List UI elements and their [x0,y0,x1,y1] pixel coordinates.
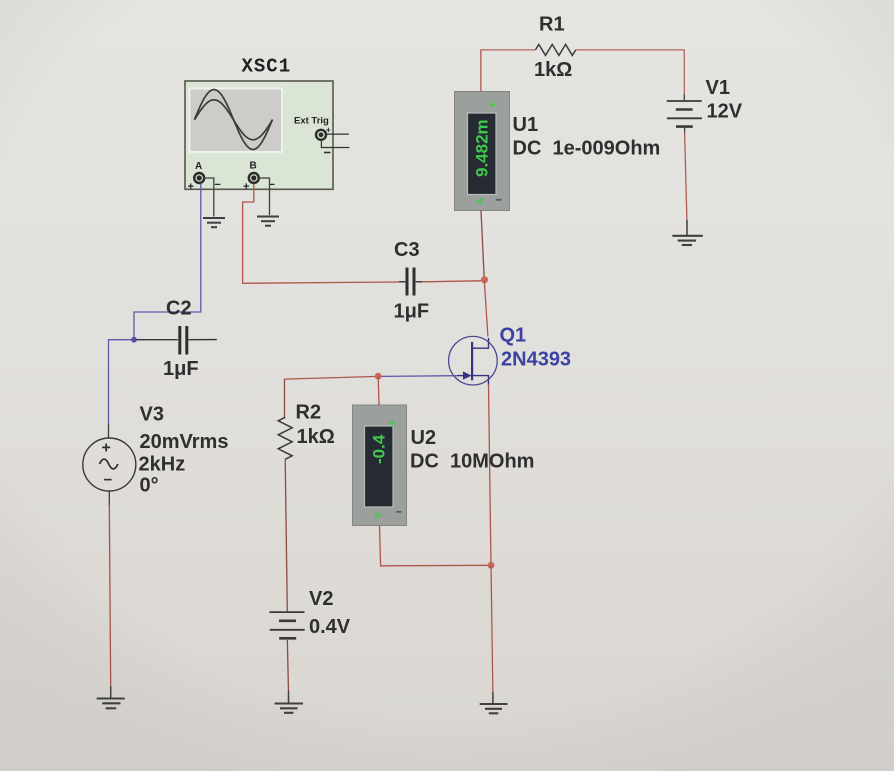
wire V2 to ground [287,638,288,703]
battery V1 [667,77,743,127]
svg-text:2kHz: 2kHz [139,454,186,476]
node drain/C3/U1 junction [481,276,488,283]
svg-text:Q1: Q1 [500,325,527,347]
wire source node to ground [491,565,493,703]
svg-text:C2: C2 [166,298,192,320]
resistor R1 [534,14,576,82]
oscilloscope XSC1 [185,56,349,194]
svg-text:U1: U1 [513,114,539,136]
svg-text:0.4V: 0.4V [309,616,351,638]
wire V3 to ground [108,491,110,505]
svg-text:12V: 12V [707,101,743,123]
svg-text:R1: R1 [539,14,565,36]
wire B- to ground [259,178,270,215]
svg-text:+: + [389,418,395,430]
ground (scope B) [257,217,279,226]
svg-text:−: − [396,507,402,519]
svg-text:A: A [195,161,202,172]
transistor Q1 (JFET) [449,325,571,386]
wire U1 bottom to node [481,211,484,281]
wire R2 top to gate node [285,376,379,379]
svg-text:DC 1e-009Ohm: DC 1e-009Ohm [513,138,661,160]
svg-text:-0.4: -0.4 [370,434,389,464]
wire top left (R1 to U1) [481,50,536,91]
wire top right (R1 to V1) [576,50,685,94]
ground (V3) [97,699,125,709]
svg-text:20mVrms: 20mVrms [140,431,229,453]
svg-text:1μF: 1μF [163,358,199,380]
svg-text:B: B [250,161,257,172]
wire V1 to ground [684,127,686,133]
wire A+ to C2 node [134,184,201,339]
wire node to Q1 drain [484,280,488,336]
svg-text:+: + [243,181,249,193]
wire Q1 source down [489,385,492,566]
wire A- to ground [204,178,214,217]
svg-text:+: + [489,100,495,112]
svg-text:Ext Trig: Ext Trig [294,116,329,127]
wire C2 left to V3 [109,340,137,424]
ground (scope A) [203,218,225,227]
svg-text:−: − [496,195,502,207]
wire U1 top to R1 wire [480,50,482,92]
svg-text:V2: V2 [309,588,333,610]
svg-text:C3: C3 [394,239,420,261]
svg-text:−: − [104,472,113,489]
svg-text:XSC1: XSC1 [242,56,292,78]
source V3 [83,404,229,497]
wire U2 bottom to source node [380,526,492,566]
resistor R2 [278,379,335,612]
svg-text:+: + [102,440,111,457]
capacitor C3 [394,239,430,323]
svg-text:DC 10MOhm: DC 10MOhm [410,451,534,473]
ground (V1) [672,236,702,245]
svg-text:V3: V3 [140,404,164,426]
svg-text:1kΩ: 1kΩ [297,426,335,448]
wire B+ down-left-down to C3 left [243,184,399,284]
wire U2 top to gate node [377,376,380,405]
svg-text:1μF: 1μF [394,301,430,323]
node gate/R2/U2 junction [375,373,382,380]
ground (V2) [275,704,304,713]
svg-text:+: + [326,126,331,135]
svg-text:2N4393: 2N4393 [501,349,571,371]
svg-text:V: V [374,512,385,519]
svg-text:R2: R2 [296,402,322,424]
svg-text:0°: 0° [140,475,159,497]
wire gate blue [378,375,457,378]
svg-text:U2: U2 [411,427,437,449]
wire C3 right to node dot [422,281,481,282]
battery V2 [270,588,351,638]
svg-text:+: + [188,181,194,193]
svg-text:A: A [476,198,487,205]
svg-text:9.482m: 9.482m [473,119,492,177]
svg-text:V1: V1 [706,77,730,99]
node C2/A junction [131,337,137,343]
ground (source) [480,704,508,713]
node source/U2 junction [488,562,495,569]
capacitor C2 [136,298,217,381]
voltmeter U2 [353,405,535,526]
ammeter U1 [455,92,661,211]
svg-text:−: − [215,179,221,191]
svg-text:1kΩ: 1kΩ [534,59,572,81]
